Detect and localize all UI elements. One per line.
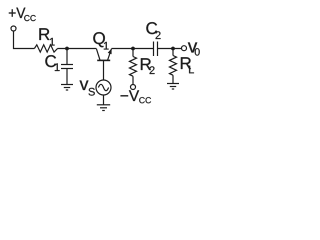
source vS bbox=[96, 80, 111, 95]
capacitor C2 bbox=[154, 42, 158, 57]
wire (to R2) bbox=[132, 49, 134, 57]
ground (below RL) bbox=[167, 84, 179, 90]
label Q1 bbox=[93, 32, 105, 47]
node v0 terminal bbox=[182, 46, 187, 51]
node junction emitter-R2 bbox=[131, 47, 135, 51]
wire (base lead) bbox=[103, 61, 105, 80]
wire bbox=[103, 95, 105, 105]
resistor R1 bbox=[34, 45, 57, 52]
wire bbox=[58, 48, 97, 50]
label R1 bbox=[39, 28, 49, 40]
wire bbox=[132, 76, 134, 84]
node junction base-R1 bbox=[65, 47, 69, 51]
label R2 bbox=[141, 58, 151, 70]
label C2 bbox=[146, 22, 157, 34]
wire bbox=[14, 31, 35, 49]
ground (below C1) bbox=[61, 85, 73, 91]
wire (to RL) bbox=[172, 49, 174, 56]
label v0 bbox=[188, 42, 197, 52]
wire bbox=[172, 75, 174, 83]
node -VCC terminal bbox=[131, 85, 136, 90]
label -VCC bbox=[121, 90, 140, 101]
label vS bbox=[80, 80, 89, 90]
capacitor C1 bbox=[61, 49, 73, 85]
node +VCC terminal bbox=[11, 26, 16, 31]
wire (C2 to v0) bbox=[158, 48, 182, 50]
ground (below vS) bbox=[97, 105, 110, 111]
node junction RL-v0 bbox=[171, 47, 175, 51]
label RL bbox=[181, 57, 191, 69]
label C1 bbox=[45, 55, 56, 67]
wire (emitter to C2) bbox=[112, 48, 154, 50]
resistor RL bbox=[170, 56, 177, 76]
label +VCC bbox=[9, 8, 26, 18]
transistor Q1 bbox=[96, 48, 111, 60]
resistor R2 bbox=[130, 57, 137, 77]
